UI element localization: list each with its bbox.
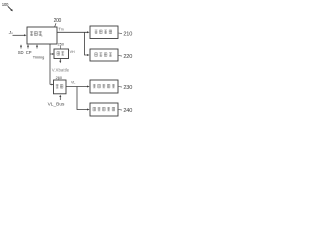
branch arrow into box 260: [50, 84, 54, 86]
label 210: [119, 32, 123, 35]
leader tick 250: [59, 46, 61, 49]
leader arrow for 100: [8, 6, 13, 11]
svg-text:230: 230: [123, 85, 132, 91]
svg-text:250: 250: [58, 42, 64, 46]
box 250: [54, 49, 69, 59]
label 240: [119, 109, 123, 112]
svg-text:220: 220: [123, 54, 132, 60]
svg-text:V.Xbattle: V.Xbattle: [52, 68, 70, 73]
svg-text:VH: VH: [70, 50, 75, 54]
CP arrow: [27, 44, 29, 48]
main box U1: [27, 27, 57, 44]
arrow up into box 260 bottom: [59, 95, 61, 100]
svg-text:SD: SD: [18, 50, 24, 55]
trunk wire to box B: [85, 32, 90, 56]
label 220: [119, 55, 123, 58]
branch arrow into box 250: [50, 53, 54, 55]
input wire arrow: [13, 34, 27, 36]
box A: [90, 26, 118, 39]
svg-text:Jₙ: Jₙ: [8, 30, 13, 35]
svg-text:T̅m: T̅m: [58, 28, 64, 32]
main box text: [30, 31, 33, 35]
arrow out of box 250 bottom: [59, 59, 61, 64]
leader tick for 200: [55, 23, 56, 27]
svg-text:100: 100: [2, 2, 9, 7]
wire: box 260 to box C: [66, 86, 90, 88]
box 260: [54, 80, 67, 94]
wire: junction down to box D: [77, 87, 90, 111]
label 230: [119, 86, 123, 89]
svg-text:210: 210: [123, 32, 132, 38]
svg-text:240: 240: [123, 108, 132, 114]
svg-text:VL: VL: [71, 80, 75, 84]
box D: [90, 103, 118, 116]
leader tick 260: [58, 79, 60, 80]
Timing arrow: [36, 44, 38, 48]
trunk wire down from main box: [49, 44, 51, 85]
wire: main box to box A: [57, 31, 90, 33]
box 250 text: [57, 52, 60, 56]
svg-text:VL_Bus: VL_Bus: [48, 102, 65, 108]
SD arrow: [20, 44, 22, 48]
svg-text:Timing: Timing: [33, 55, 45, 60]
svg-text:CP: CP: [26, 50, 32, 55]
box 260 text: [56, 84, 59, 88]
box B: [90, 49, 118, 61]
svg-text:200: 200: [54, 18, 62, 24]
box C: [90, 80, 118, 93]
